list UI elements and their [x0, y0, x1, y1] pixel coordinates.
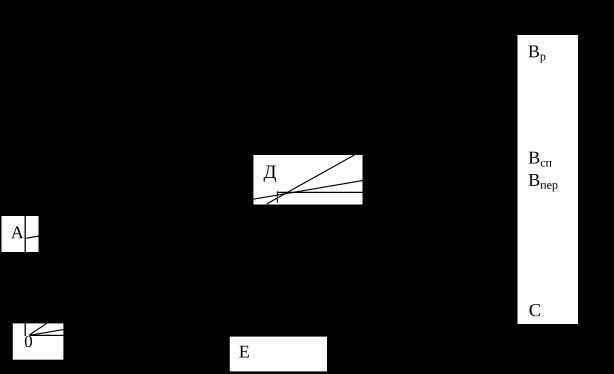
label box right (line labels) — [518, 35, 579, 324]
break-even tick mark in box Д — [276, 191, 278, 202]
label box 0 (origin) — [13, 323, 64, 359]
label Е — [239, 346, 249, 358]
label 0 — [25, 336, 32, 347]
line Впер segment in box 0 — [30, 330, 64, 336]
label А — [11, 226, 24, 238]
label Всп — [529, 152, 552, 167]
label box А (fixed-cost level on y-axis) — [2, 216, 39, 252]
label box Е (x-axis label) — [230, 337, 327, 372]
line С horizontal segment in box Д — [277, 191, 362, 193]
line Вр segment in box 0 — [29, 323, 47, 335]
label С — [530, 304, 541, 316]
y-axis segment in box А — [24, 216, 26, 252]
label box Д (break-even point) — [253, 155, 362, 205]
x-axis segment in box 0 — [30, 334, 64, 336]
label Впер — [529, 174, 558, 191]
line Всп segment in box А — [25, 236, 38, 238]
line Вр segment in box Д — [267, 155, 355, 204]
y-axis segment in box 0 — [24, 324, 26, 337]
line Всп segment in box Д — [254, 181, 363, 200]
label Вр — [528, 46, 545, 63]
label Д — [264, 166, 276, 182]
